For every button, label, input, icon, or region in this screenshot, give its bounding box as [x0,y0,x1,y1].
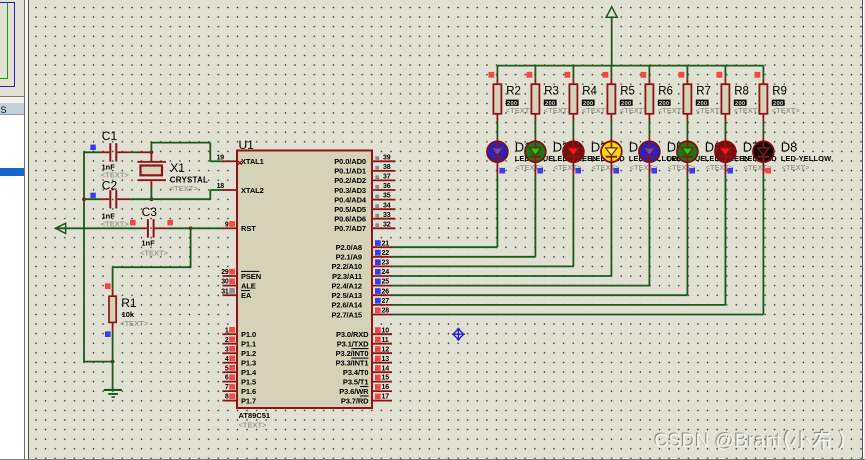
svg-text:P2.7/A15: P2.7/A15 [332,310,362,319]
wire: R2 to D1 [496,122,498,137]
resistor R6 [645,78,653,122]
node: D6 bottom marker [689,168,695,174]
LED D8 [753,137,774,175]
watermark CSDN [653,429,843,452]
svg-text:P0.5/AD5: P0.5/AD5 [334,205,366,214]
node: junction RST / R1 branch [189,226,193,230]
svg-text:P0.3/AD3: P0.3/AD3 [334,186,366,195]
wire: D1 to pin 21 [496,175,498,247]
svg-text:R8: R8 [734,85,749,97]
wire: rail stub col 5 [648,66,650,79]
pin 17 P3.7/RD (right) [341,394,392,406]
node: D7 bottom marker [727,168,733,174]
svg-text:38: 38 [383,164,391,171]
svg-text:C2: C2 [102,179,118,193]
overview bottom border [0,96,29,97]
svg-text:R1: R1 [121,296,137,310]
right edge [862,0,863,460]
wire: R7 to D6 [686,122,688,137]
svg-text:C1: C1 [102,129,118,143]
pin 39 P0.0/AD0 (right) [334,154,395,166]
svg-text:23: 23 [382,260,390,267]
svg-text:P3.5/T1: P3.5/T1 [343,377,369,386]
label R7 value 200 (inverted) [696,100,709,107]
svg-text:29: 29 [221,269,229,276]
svg-text:10: 10 [382,327,390,334]
svg-text:<TEXT>: <TEXT> [734,106,763,115]
svg-text:CSDN @Brant: CSDN @Brant [654,430,782,452]
wire: D6 to pin 26 [686,175,688,295]
LED D7 [715,137,736,175]
svg-text:<TEXT>: <TEXT> [782,163,811,172]
svg-text:30: 30 [221,279,229,286]
pin 8 P1.7 (left) [223,393,257,405]
svg-text:P1.5: P1.5 [241,377,256,386]
svg-text:P1.2: P1.2 [241,349,256,358]
svg-text:AT89C51: AT89C51 [239,411,271,420]
pin marker: XTAL1 clock cross [238,161,242,165]
pin 27 P2.6/A14 (right) [332,298,392,310]
svg-text:<TEXT>: <TEXT> [544,106,573,115]
wire: to pin 19 [210,160,223,162]
node: R5 top marker (red) [603,72,609,78]
svg-text:X1: X1 [170,161,185,175]
node: R1 bottom marker (blue) [105,331,111,337]
node: C1 left marker (blue) [90,145,95,150]
resistor R2 [493,78,501,122]
wire: D5 to pin 25 [648,175,650,286]
svg-text:P2.5/A13: P2.5/A13 [332,291,362,300]
svg-text:RST: RST [241,224,256,233]
pin 1 P1.0 (left) [223,327,257,339]
pin 33 P0.6/AD6 (right) [334,212,395,224]
wire: power drop [611,17,613,65]
svg-text:R6: R6 [658,85,673,97]
svg-text:<TEXT>: <TEXT> [101,220,130,229]
wire: R3 to D2 [534,122,536,137]
LED D4 [601,137,622,175]
svg-text:P0.4/AD4: P0.4/AD4 [334,195,367,204]
node: D4 bottom marker [613,168,619,174]
bottom edge line [0,459,865,460]
svg-text:<TEXT>: <TEXT> [506,106,535,115]
svg-text:<TEXT>: <TEXT> [658,106,687,115]
terminal: RST left arrow [56,223,66,233]
svg-text:LED-YELLOW: LED-YELLOW [781,154,832,163]
wire: RST row [55,227,141,229]
svg-text:16: 16 [382,384,390,391]
node: C3 left marker (red) [130,220,136,226]
svg-text:1nF: 1nF [141,239,155,248]
pin 34 P0.5/AD5 (right) [334,202,395,214]
svg-text:P0.1/AD1: P0.1/AD1 [334,167,366,176]
pin 18 XTAL2 (left) [217,183,264,195]
svg-text:XTAL2: XTAL2 [241,186,264,195]
pin 11 P3.1/TXD (right) [337,337,392,349]
pin 5 P1.4 (left) [223,365,257,377]
svg-text:7: 7 [225,384,229,391]
svg-text:4: 4 [225,356,229,363]
pin 6 P1.5 (left) [223,374,257,386]
svg-text:39: 39 [383,154,391,161]
node: junction crystal bottom [150,197,154,201]
svg-text:P2.3/A11: P2.3/A11 [332,272,362,281]
svg-text:<TEXT>: <TEXT> [170,184,199,193]
pin 22 P2.1/A9 (right) [336,250,392,262]
ground [104,389,122,398]
pin 31 EA (left) [221,288,252,300]
svg-text:P3.2/INT0: P3.2/INT0 [336,349,369,358]
pin 4 P1.3 (left) [223,356,257,368]
left panel: overview window [0,0,24,96]
svg-text:<TEXT>: <TEXT> [239,420,268,429]
resistor R4 [569,78,577,122]
svg-text:19: 19 [217,154,225,161]
svg-text:1: 1 [225,327,229,334]
list header bar [0,102,24,115]
pin 2 P1.1 (left) [223,337,257,349]
svg-text:3: 3 [225,346,229,353]
pin 29 PSEN (left) [221,269,261,281]
svg-text:12: 12 [382,346,390,353]
wire: rail stub col 2 [534,66,536,79]
LED D5 [639,137,660,175]
svg-text:P3.4/T0: P3.4/T0 [343,368,369,377]
node: D2 bottom marker [537,168,543,174]
svg-text:<TEXT>: <TEXT> [772,106,801,115]
pin 23 P2.2/A10 (right) [332,259,392,271]
wire: rail stub col 4 [610,66,612,79]
panel border bands [24,0,25,460]
svg-text:<TEXT>: <TEXT> [582,106,611,115]
wire: R6 to D5 [648,122,650,137]
LED D6 [677,137,698,175]
overview sheet rect (green) [0,2,8,79]
svg-text:P2.2/A10: P2.2/A10 [332,262,362,271]
svg-text:C3: C3 [142,205,158,219]
wire: gnd rail jog to R1 column [83,361,113,363]
pin 10 P3.0/RXD (right) [336,327,392,339]
wire: rail stub col 3 [572,66,574,79]
svg-text:5: 5 [225,365,229,372]
pin 14 P3.4/T0 (right) [343,365,392,377]
svg-text:PSEN: PSEN [241,272,261,281]
node: C2 left marker (blue) [90,193,95,198]
pin 38 P0.1/AD1 (right) [334,164,395,176]
node: D1 bottom marker [499,168,505,174]
svg-text:10k: 10k [122,310,135,319]
svg-text:2: 2 [225,337,229,344]
origin marker (blue diamond) [452,328,465,341]
svg-text:P0.6/AD6: P0.6/AD6 [334,215,366,224]
pin 15 P3.5/T1 (right) [343,375,392,387]
svg-text:P2.1/A9: P2.1/A9 [336,253,362,262]
svg-text:18: 18 [217,183,225,190]
svg-text:<TEXT>: <TEXT> [696,106,725,115]
svg-text:P0.7/AD7: P0.7/AD7 [334,224,366,233]
IC U1 AT89C51 [237,151,372,409]
resistor R3 [531,78,539,122]
pin 25 P2.4/A12 (right) [332,279,392,291]
node: R1 top marker (red) [105,283,111,289]
wire: rail stub col 6 [686,66,688,79]
wire: R1 to ground [112,332,114,390]
wire: crystal bottom to XTAL2 row [150,188,152,200]
crystal X1 [137,152,166,187]
svg-text:8: 8 [225,394,229,401]
pin 28 P2.7/A15 (right) [332,308,392,320]
pin 3 P1.2 (left) [223,346,257,358]
node: junction gnd rail / ground column [111,360,115,364]
svg-text:25: 25 [382,279,390,286]
wire: rail stub col 1 [496,66,498,79]
svg-text:11: 11 [382,337,389,344]
node: R4 top marker (red) [565,72,571,78]
device list [0,115,24,460]
svg-text:36: 36 [383,183,391,190]
wire: rail stub col 8 [762,66,764,79]
svg-text:22: 22 [382,250,390,257]
svg-text:P1.3: P1.3 [241,359,256,368]
label R2 value 200 (inverted) [506,100,519,107]
LED D2 [525,137,546,175]
wire: left gnd rail vertical [83,152,85,362]
node: junction crystal top [150,150,154,154]
svg-text:26: 26 [382,288,390,295]
pin 13 P3.3/INT1 (right) [336,356,392,368]
svg-text:<TEXT>: <TEXT> [620,106,649,115]
svg-text:XTAL1: XTAL1 [241,157,264,166]
svg-text:R3: R3 [544,85,559,97]
node: R6 top marker (red) [641,72,647,78]
wire: D7 to pin 27 [724,175,726,305]
node: R3 top marker (red) [527,72,533,78]
svg-text:P3.3/INT1: P3.3/INT1 [336,359,369,368]
pin 26 P2.5/A13 (right) [332,288,392,300]
svg-text:14: 14 [382,365,390,372]
power terminal (top) [606,7,617,17]
svg-text:P1.7: P1.7 [241,396,256,405]
svg-text:24: 24 [382,269,390,276]
svg-text:37: 37 [383,174,391,181]
label R6 value 200 (inverted) [658,100,671,107]
overview view rect (blue) [0,2,15,87]
svg-text:P2.6/A14: P2.6/A14 [332,301,363,310]
svg-text:15: 15 [382,375,390,382]
wire: D3 to pin 23 [572,175,574,267]
svg-text:28: 28 [382,308,390,315]
svg-text:6: 6 [225,375,229,382]
svg-text:P1.0: P1.0 [241,330,256,339]
node: D5 bottom marker [651,168,657,174]
node: R2 top marker (red) [489,72,495,78]
svg-text:R7: R7 [696,85,711,97]
pin 7 P1.6 (left) [223,384,257,396]
svg-text:<TEXT>: <TEXT> [140,249,169,258]
wire: D2 to pin 22 [534,175,536,257]
node: R9 top marker (red) [755,72,761,78]
pin 9 RST (left) [223,221,257,233]
wire: R9 to D8 [762,122,764,137]
svg-text:32: 32 [383,221,391,228]
label R5 value 200 (inverted) [620,100,633,107]
node: D3 bottom marker [575,168,581,174]
capacitor C2 [84,190,130,208]
wire: R8 to D7 [724,122,726,137]
node: R8 top marker (red) [717,72,723,78]
svg-text:ALE: ALE [241,281,256,290]
svg-text:<TEXT>: <TEXT> [120,319,149,328]
svg-text:R5: R5 [620,85,635,97]
label R9 value 200 (inverted) [772,100,785,107]
svg-text:9: 9 [225,221,229,228]
pin 37 P0.2/AD2 (right) [334,174,395,186]
label R8 value 200 (inverted) [734,100,747,107]
svg-text:P3.7/RD: P3.7/RD [341,396,369,405]
svg-text:17: 17 [382,394,390,401]
svg-text:D8: D8 [781,140,798,155]
pin 32 P0.7/AD7 (right) [334,221,395,233]
wire: D4 to pin 24 [610,175,612,276]
wire: R1 branch [190,228,192,267]
resistor R9 [759,78,767,122]
svg-text:34: 34 [383,202,391,209]
pin 36 P0.3/AD3 (right) [334,183,395,195]
wire: C3 to pin 9 [168,227,224,229]
svg-text:R2: R2 [506,85,521,97]
resistor R1 [109,289,116,332]
pin 12 P3.2/INT0 (right) [336,346,392,358]
pin 21 P2.0/A8 (right) [336,240,392,252]
resistor R8 [721,78,729,122]
svg-text:P1.4: P1.4 [241,368,257,377]
node: C3 right marker (red) [167,220,173,226]
svg-text:35: 35 [383,193,391,200]
node: R7 top marker (red) [679,72,685,78]
svg-text:27: 27 [382,298,390,305]
wire: rail stub col 7 [724,66,726,79]
label R3 value 200 (inverted) [544,100,557,107]
node: D8 bottom marker [765,168,771,174]
pin 35 P0.4/AD4 (right) [334,193,395,205]
svg-text:P0.2/AD2: P0.2/AD2 [334,176,366,185]
svg-text:P2.4/A12: P2.4/A12 [332,281,362,290]
svg-text:P1.1: P1.1 [241,340,256,349]
resistor R5 [607,78,615,122]
svg-text:P3.0/RXD: P3.0/RXD [336,330,369,339]
label R4 value 200 (inverted) [582,100,595,107]
capacitor C3 [141,219,167,237]
svg-text:13: 13 [382,356,390,363]
pin 16 P3.6/WR (right) [339,384,392,396]
resistor R7 [683,78,691,122]
gap below overview [0,97,24,101]
LED D1 [487,137,508,175]
svg-text:21: 21 [382,240,390,247]
wire: XTAL2 row to pin 18 [130,198,210,200]
wire: C1 to crystal top node [130,151,138,153]
svg-text:P1.6: P1.6 [241,387,256,396]
svg-text:P0.0/AD0: P0.0/AD0 [334,157,366,166]
node: junction C2 row / gnd rail [82,197,86,201]
pin 19 XTAL1 (left) [217,154,264,166]
svg-text:P2.0/A8: P2.0/A8 [336,243,362,252]
svg-text:P3.1/TXD: P3.1/TXD [337,340,369,349]
pin 24 P2.3/A11 (right) [332,269,392,281]
svg-text:EA: EA [241,291,252,300]
wire: crystal node up to XTAL1 rail [150,143,152,153]
LED D3 [563,137,584,175]
capacitor C1 [84,143,130,161]
svg-text:R4: R4 [582,85,597,97]
svg-text:U1: U1 [239,138,255,152]
wire: R5 to D4 [610,122,612,137]
svg-text:P3.6/WR: P3.6/WR [339,387,369,396]
svg-text:33: 33 [383,212,391,219]
wire: D8 to pin 28 [762,175,764,315]
svg-text:R9: R9 [772,85,787,97]
wire: power rail [497,65,763,67]
wire: R4 to D3 [572,122,574,137]
pin 30 ALE (left) [221,278,256,290]
svg-text:31: 31 [221,288,229,295]
selected row [0,168,24,176]
